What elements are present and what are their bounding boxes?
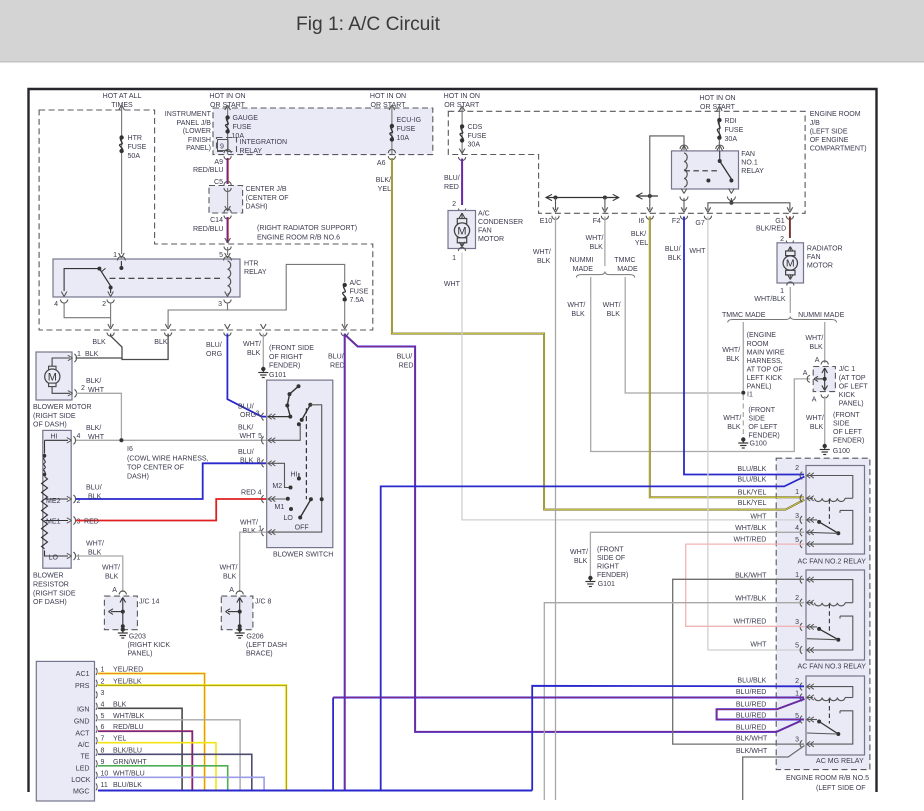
connector F2 (681, 207, 684, 212)
svg-text:ENGINE ROOM R/B NO.6: ENGINE ROOM R/B NO.6 (257, 235, 340, 242)
svg-text:BLK: BLK (88, 550, 102, 557)
svg-text:WHT/: WHT/ (723, 415, 741, 422)
connector radiator motor pin 2 (786, 241, 793, 245)
blower switch pin 8 (262, 460, 264, 468)
svg-text:WHT/RED: WHT/RED (734, 619, 767, 626)
svg-text:BLU/BLK: BLU/BLK (113, 782, 142, 789)
svg-text:(ENGINE: (ENGINE (747, 332, 777, 339)
svg-text:(CENTER OF: (CENTER OF (246, 195, 290, 202)
svg-text:BLK: BLK (247, 350, 261, 357)
svg-text:HOT IN ON: HOT IN ON (699, 95, 735, 102)
svg-text:BLU/BLK: BLU/BLK (737, 466, 766, 473)
svg-text:AT TOP OF: AT TOP OF (747, 367, 784, 374)
svg-text:FAN: FAN (807, 254, 821, 261)
svg-text:7: 7 (101, 736, 105, 743)
svg-text:PANEL): PANEL) (128, 651, 153, 658)
svg-text:WHT/: WHT/ (806, 415, 824, 422)
wire RED/BLU C14 to R/B (227, 217, 229, 243)
svg-text:8: 8 (257, 458, 261, 465)
svg-text:WHT/: WHT/ (533, 249, 551, 256)
wire WHT/BLK F4 to brace (604, 217, 606, 267)
svg-text:ORG: ORG (240, 412, 256, 419)
radiator fan motor box (777, 243, 804, 283)
ground G206 (238, 627, 242, 631)
svg-text:3: 3 (218, 301, 222, 308)
svg-text:(RIGHT SIDE: (RIGHT SIDE (33, 413, 76, 420)
wire BLK/RED G1 to radiator fan motor (789, 217, 791, 239)
svg-text:BLU/: BLU/ (397, 354, 413, 361)
svg-text:4: 4 (54, 301, 58, 308)
svg-text:C14: C14 (210, 217, 223, 224)
svg-text:LEFT KICK: LEFT KICK (747, 375, 783, 382)
wire RDI fuse to fan relay (718, 140, 720, 146)
wire WHT condenser motor to AC FAN NO.2 relay pin 3 (462, 253, 804, 520)
svg-text:WHT: WHT (750, 514, 767, 521)
svg-text:HOT AT ALL: HOT AT ALL (103, 93, 142, 100)
wire BLU/ORG chevron to switch pin 3 (227, 334, 266, 417)
svg-text:BLK: BLK (726, 356, 740, 363)
wire WHT/BLK F4-TMMC to I1 (625, 277, 740, 393)
connector G7 (705, 207, 708, 212)
svg-text:HARNESS,: HARNESS, (747, 358, 783, 365)
svg-text:3: 3 (795, 619, 799, 626)
svg-text:WHT/: WHT/ (86, 541, 104, 548)
title bar (0, 0, 924, 61)
svg-text:AC MG RELAY: AC MG RELAY (816, 758, 864, 765)
svg-text:ACT: ACT (75, 731, 90, 738)
svg-text:Fig 1: A/C Circuit: Fig 1: A/C Circuit (296, 14, 441, 35)
svg-text:(FRONT: (FRONT (833, 412, 860, 419)
svg-text:BLK/BLU: BLK/BLU (113, 747, 142, 754)
svg-text:YEL: YEL (635, 240, 648, 247)
svg-text:YEL/RED: YEL/RED (113, 667, 143, 674)
svg-text:IGN: IGN (77, 707, 90, 714)
svg-text:5: 5 (258, 433, 262, 440)
junction box: instrument panel J/B (213, 108, 433, 155)
blower switch internals (268, 416, 291, 418)
chevron BLU/ORG (225, 324, 228, 329)
svg-text:WHT/: WHT/ (805, 335, 823, 342)
wire HTR relay pin 4 to pin 2 wire (64, 303, 111, 318)
svg-text:OF LEFT: OF LEFT (833, 429, 863, 436)
svg-text:10A: 10A (397, 135, 410, 142)
svg-text:KICK: KICK (839, 392, 856, 399)
relay AC FAN NO.3 (box) (806, 570, 865, 660)
svg-text:RED: RED (444, 184, 459, 191)
svg-text:4: 4 (77, 433, 81, 440)
svg-text:M: M (457, 226, 466, 238)
wire gauge fuse feed (225, 105, 228, 110)
svg-text:OF ENGINE: OF ENGINE (810, 137, 849, 144)
blower resistor pin 2 (ME2) (73, 495, 75, 503)
connector A9 (224, 150, 231, 154)
wire RED resistor ME1 to switch pin 4 (76, 499, 266, 521)
junction connector J/C 1 (813, 367, 835, 392)
fuse HTR 50A (119, 135, 123, 139)
svg-text:BLU/: BLU/ (444, 175, 460, 182)
connector E10 (553, 207, 556, 212)
svg-text:WHT/: WHT/ (586, 235, 604, 242)
connector A (J/C1 bottom) (821, 395, 828, 399)
A/C condenser fan motor box (448, 211, 476, 249)
svg-text:(FRONT SIDE: (FRONT SIDE (269, 345, 314, 352)
AC FAN NO.2 relay internals (807, 476, 853, 499)
svg-text:J/B: J/B (810, 120, 820, 127)
ground G100 (nummi) (823, 444, 827, 448)
AC FAN NO.2 pin 1 (800, 495, 802, 503)
wire BLK/WHT link MG pin3 to NO.3 pin1 (673, 579, 804, 744)
svg-text:FENDER): FENDER) (833, 438, 864, 445)
svg-text:3: 3 (77, 519, 81, 526)
svg-text:FAN: FAN (741, 151, 755, 158)
svg-text:(LOWER: (LOWER (183, 128, 211, 135)
svg-text:BLK: BLK (85, 351, 99, 358)
svg-text:OR START: OR START (700, 104, 736, 111)
svg-text:BLU/: BLU/ (86, 485, 102, 492)
fuse RDI 30A (717, 118, 721, 122)
connector C14 (224, 209, 231, 213)
svg-text:COMPARTMENT): COMPARTMENT) (810, 146, 867, 153)
svg-text:(RIGHT KICK: (RIGHT KICK (128, 642, 171, 649)
svg-text:A9: A9 (214, 159, 223, 166)
HTR relay pin 3 (225, 292, 228, 297)
blower resistor box (43, 430, 71, 568)
AC FAN NO.3 relay internals (807, 580, 853, 603)
svg-text:2: 2 (780, 236, 784, 243)
svg-text:(AT TOP: (AT TOP (839, 375, 866, 382)
AC FAN NO.2 pin 2 (800, 472, 802, 480)
svg-text:WHT/BLK: WHT/BLK (754, 296, 786, 303)
svg-text:RED: RED (330, 363, 345, 370)
node fan relay output junction (729, 201, 733, 205)
wire WHT/BLK radiator motor to brace (789, 287, 791, 313)
svg-text:BLU/: BLU/ (206, 342, 222, 349)
J/B internal bus I6 stub (637, 195, 659, 197)
svg-text:DASH): DASH) (127, 474, 149, 481)
AC FAN NO.2 pin 5 (800, 540, 802, 548)
wire HTR relay pin 3 junction (227, 303, 229, 311)
svg-text:OF RIGHT: OF RIGHT (269, 354, 303, 361)
svg-text:OR START: OR START (371, 102, 407, 109)
svg-text:GRN/WHT: GRN/WHT (113, 759, 147, 766)
svg-text:WHT/: WHT/ (567, 302, 585, 309)
svg-text:RED: RED (399, 363, 414, 370)
svg-text:A: A (229, 587, 234, 594)
svg-text:YEL: YEL (378, 186, 391, 193)
svg-text:BLK: BLK (571, 311, 585, 318)
wire BLU/RED A/C fuse diagonal branch to AC MG relay pin 5 (345, 335, 801, 732)
svg-text:NUMMI: NUMMI (570, 257, 594, 264)
wire WHT/BLK resistor LO to J/C 14 (76, 556, 123, 592)
wire A/C fuse to chevron (344, 301, 346, 327)
svg-text:A: A (803, 370, 808, 377)
svg-text:PANEL): PANEL) (839, 401, 864, 408)
AC MG pin 5 (800, 716, 802, 724)
svg-text:G100: G100 (750, 441, 767, 448)
diagram frame (29, 89, 877, 792)
fan relay coil (684, 153, 687, 187)
AC FAN NO.3 pin 3 (800, 623, 802, 631)
svg-text:WHT: WHT (240, 433, 257, 440)
chevron WHT/BLK to G101 (261, 324, 264, 329)
svg-text:(RIGHT RADIATOR SUPPORT): (RIGHT RADIATOR SUPPORT) (257, 225, 357, 232)
junction box: engine room J/B (448, 111, 805, 213)
svg-text:RADIATOR: RADIATOR (807, 246, 843, 253)
blower resistor pin 4 (HI) (73, 436, 75, 444)
svg-text:PRS: PRS (75, 683, 90, 690)
svg-text:AC FAN NO.3 RELAY: AC FAN NO.3 RELAY (798, 664, 867, 671)
wire WHT/BLK radiator NUMMI to J/C 1 (824, 322, 826, 363)
svg-text:3: 3 (795, 737, 799, 744)
svg-text:3: 3 (256, 411, 260, 418)
svg-text:MOTOR: MOTOR (478, 236, 504, 243)
svg-text:4: 4 (101, 701, 105, 708)
svg-text:FENDER): FENDER) (597, 572, 628, 579)
svg-text:ORG: ORG (206, 351, 222, 358)
svg-text:BLK: BLK (88, 494, 102, 501)
junction box: engine room R/B no.6 (left dashed box) (39, 110, 373, 330)
svg-text:1: 1 (113, 252, 117, 259)
blower motor pin 2 (74, 389, 76, 397)
svg-text:WHT/: WHT/ (240, 520, 258, 527)
svg-text:WHT/: WHT/ (603, 302, 621, 309)
svg-text:TMMC MADE: TMMC MADE (722, 312, 766, 319)
relay FAN NO.1 (box) (672, 151, 739, 189)
svg-text:(FRONT: (FRONT (748, 407, 775, 414)
svg-text:11: 11 (101, 782, 108, 789)
wire RED/BLU A9 to C5 (227, 158, 229, 184)
svg-text:BLK/WHT: BLK/WHT (735, 573, 767, 580)
svg-text:PANEL): PANEL) (747, 384, 772, 391)
svg-text:FAN: FAN (478, 228, 492, 235)
svg-text:PANEL): PANEL) (186, 145, 211, 152)
svg-text:RED: RED (241, 490, 256, 497)
svg-text:HI: HI (50, 434, 57, 441)
svg-text:4: 4 (795, 525, 799, 532)
svg-text:1: 1 (101, 667, 105, 674)
blower resistor internals (44, 440, 46, 453)
svg-text:2: 2 (81, 385, 85, 392)
svg-text:BLK/YEL: BLK/YEL (738, 490, 767, 497)
AC FAN NO.2 pin 4 (800, 529, 802, 537)
svg-text:BLK: BLK (574, 558, 588, 565)
svg-text:BRACE): BRACE) (246, 651, 273, 658)
wire WHT/BLK radiator TMMC to I1 (742, 322, 744, 393)
svg-text:CENTER J/B: CENTER J/B (246, 186, 287, 193)
wire BLK/WHT resistor HI to blower switch pin 5 (76, 439, 266, 441)
svg-text:F2: F2 (672, 218, 680, 225)
blower switch pin 5 (262, 437, 264, 445)
svg-text:AC FAN NO.2 RELAY: AC FAN NO.2 RELAY (798, 559, 867, 566)
svg-text:BLU/RED: BLU/RED (736, 725, 767, 732)
svg-text:C5: C5 (214, 179, 223, 186)
svg-text:WHT: WHT (689, 248, 706, 255)
connector F4 (602, 207, 605, 212)
ground G203 (121, 627, 125, 631)
svg-text:G7: G7 (695, 220, 704, 227)
HTR relay internals (120, 261, 122, 266)
svg-text:WHT: WHT (444, 281, 461, 288)
svg-text:A/C: A/C (350, 280, 362, 287)
svg-text:BLK: BLK (727, 424, 741, 431)
AC FAN NO.3 pin 5 (800, 646, 802, 654)
blower motor symbol M (52, 358, 70, 366)
svg-text:ME2: ME2 (46, 498, 61, 505)
svg-text:CONDENSER: CONDENSER (478, 219, 523, 226)
svg-text:RELAY: RELAY (240, 148, 263, 155)
svg-text:NUMMI MADE: NUMMI MADE (798, 312, 844, 319)
svg-text:G1: G1 (775, 218, 784, 225)
svg-text:BLU/RED: BLU/RED (736, 702, 767, 709)
svg-text:G101: G101 (598, 581, 615, 588)
svg-text:I6: I6 (127, 446, 133, 453)
wire F4 drop (604, 198, 606, 211)
svg-text:ROOM: ROOM (747, 341, 769, 348)
svg-text:BLK: BLK (668, 255, 682, 262)
fuse A/C 7.5A (343, 283, 347, 287)
svg-text:MAIN WIRE: MAIN WIRE (747, 350, 785, 357)
blower motor pin 1 (74, 354, 76, 362)
svg-text:BLK/: BLK/ (376, 177, 391, 184)
wire RED/BLU amp pin 6 (98, 731, 192, 789)
wire through center J/B (227, 188, 229, 211)
svg-text:BLK: BLK (105, 574, 119, 581)
svg-text:BLK/: BLK/ (86, 378, 101, 385)
fuse CDS 30A (460, 124, 464, 128)
svg-text:BLK: BLK (537, 258, 551, 265)
svg-text:6: 6 (101, 724, 105, 731)
svg-text:(LEFT DASH: (LEFT DASH (246, 642, 287, 649)
AC FAN NO.3 pin 1 (800, 576, 802, 584)
svg-text:BLK: BLK (607, 311, 621, 318)
fuse ECU-IG 10A (390, 124, 394, 128)
wire BLU/BLK resistor ME2 to switch pin 8 (76, 463, 266, 499)
svg-text:WHT: WHT (750, 642, 767, 649)
connector radiator motor pin 1 (787, 282, 794, 286)
svg-text:A/C: A/C (478, 211, 490, 218)
svg-text:WHT/: WHT/ (570, 549, 588, 556)
wire BLU/BLK riser from bus (332, 698, 334, 791)
connector condenser motor pin 1 (458, 247, 465, 251)
svg-text:BLU/: BLU/ (238, 449, 254, 456)
svg-text:1: 1 (795, 489, 799, 496)
AC MG pin 2 (800, 683, 802, 691)
svg-text:RED/BLU: RED/BLU (113, 724, 144, 731)
svg-text:OF LEFT: OF LEFT (839, 384, 869, 391)
svg-text:DASH): DASH) (246, 204, 268, 211)
wire BLK/WHT second from MG pin3 down (743, 746, 805, 801)
svg-text:RELAY: RELAY (741, 168, 764, 175)
ground G100 (tmmc) (741, 437, 745, 441)
svg-text:BLK/: BLK/ (631, 231, 646, 238)
junction box: engine room R/B no.5 (776, 458, 870, 769)
wire E10 drop (555, 198, 557, 211)
svg-text:1: 1 (795, 572, 799, 579)
svg-text:SIDE: SIDE (833, 421, 850, 428)
fan relay switch output (729, 189, 732, 194)
svg-text:30A: 30A (468, 142, 481, 149)
relay HTR (box) (53, 259, 240, 297)
svg-text:TE: TE (80, 754, 89, 761)
svg-text:BLK/: BLK/ (86, 425, 101, 432)
wire WHT/BLK switch pin 1 to J/C 8 (240, 532, 266, 592)
svg-text:WHT/RED: WHT/RED (734, 537, 767, 544)
svg-text:4: 4 (258, 490, 262, 497)
wire BLK/YEL A6 down-right-down-right to AC FAN NO.2 relay pin 1 (392, 158, 805, 510)
svg-text:NO.1: NO.1 (741, 160, 758, 167)
junction connector J/C 14 (104, 596, 137, 630)
svg-text:5: 5 (219, 252, 223, 259)
svg-text:2: 2 (795, 678, 799, 685)
svg-text:LO: LO (284, 515, 294, 522)
wire YEL amp pin 7 (98, 743, 216, 790)
svg-text:9: 9 (101, 759, 105, 766)
AC MG pin 3 (800, 740, 802, 748)
relay AC MG (box) (806, 676, 865, 755)
svg-text:WHT/: WHT/ (243, 341, 261, 348)
wire WHT/BLU amp pin 10 (98, 777, 264, 789)
svg-text:OFF: OFF (295, 525, 310, 532)
svg-text:RED: RED (84, 519, 99, 526)
wire WHT/BLK AC FAN NO.2 pin 4 to G101 (590, 532, 804, 576)
svg-text:HTR: HTR (244, 261, 258, 268)
AC MG relay internals (807, 687, 853, 698)
fan relay coil output to F2 (681, 189, 684, 194)
chevron BLK (pin3 feed) (165, 324, 168, 329)
wire WHT/BLK F4-NUMMI to J/C 1 (591, 277, 810, 452)
svg-text:FINISH: FINISH (188, 137, 211, 144)
svg-text:BLU/RED: BLU/RED (736, 689, 767, 696)
svg-text:WHT/: WHT/ (102, 565, 120, 572)
wire hot-at-all-times to HTR fuse (119, 105, 122, 110)
svg-text:5: 5 (795, 537, 799, 544)
svg-text:BLK: BLK (809, 344, 823, 351)
svg-text:OF LEFT: OF LEFT (748, 424, 778, 431)
svg-text:FENDER): FENDER) (748, 433, 779, 440)
A/C condenser fan motor symbol (459, 213, 462, 218)
svg-text:M2: M2 (272, 483, 282, 490)
svg-text:WHT/BLU: WHT/BLU (113, 770, 145, 777)
svg-text:ME1: ME1 (46, 519, 61, 526)
svg-text:2: 2 (102, 301, 106, 308)
svg-text:A: A (812, 397, 817, 404)
ground G101 (front side of right fender, right) (588, 576, 592, 580)
radiator fan motor symbol (788, 247, 791, 252)
svg-text:1: 1 (77, 351, 81, 358)
wire WHT/BLK E10 down (555, 217, 557, 801)
wire J/C1 to G100 (824, 396, 826, 444)
svg-text:A: A (112, 587, 117, 594)
svg-text:RDI: RDI (725, 118, 737, 125)
chevron BLK (pin2 feed) (108, 324, 111, 329)
svg-text:HOT IN ON: HOT IN ON (209, 93, 245, 100)
wire BLU/BLK riser to MG pin 2 (532, 686, 804, 791)
svg-text:1: 1 (780, 288, 784, 295)
svg-text:BLU/BLK: BLU/BLK (737, 678, 766, 685)
wire cds fuse feed (459, 106, 462, 111)
wire ecu-ig fuse feed (389, 105, 392, 110)
svg-text:BLU/: BLU/ (328, 354, 344, 361)
svg-text:2: 2 (452, 201, 456, 208)
wire fan relay output to G7 and G1 (708, 203, 790, 210)
svg-text:50A: 50A (128, 153, 141, 160)
svg-text:BLOWER MOTOR: BLOWER MOTOR (33, 404, 92, 411)
svg-text:(LEFT SIDE: (LEFT SIDE (810, 129, 848, 136)
svg-text:INSTRUMENT: INSTRUMENT (165, 111, 212, 118)
junction connector J/C 8 (221, 596, 253, 630)
wire HTR relay pin 2 down to blower feed chevron (110, 303, 112, 328)
svg-text:BLU/: BLU/ (238, 404, 254, 411)
